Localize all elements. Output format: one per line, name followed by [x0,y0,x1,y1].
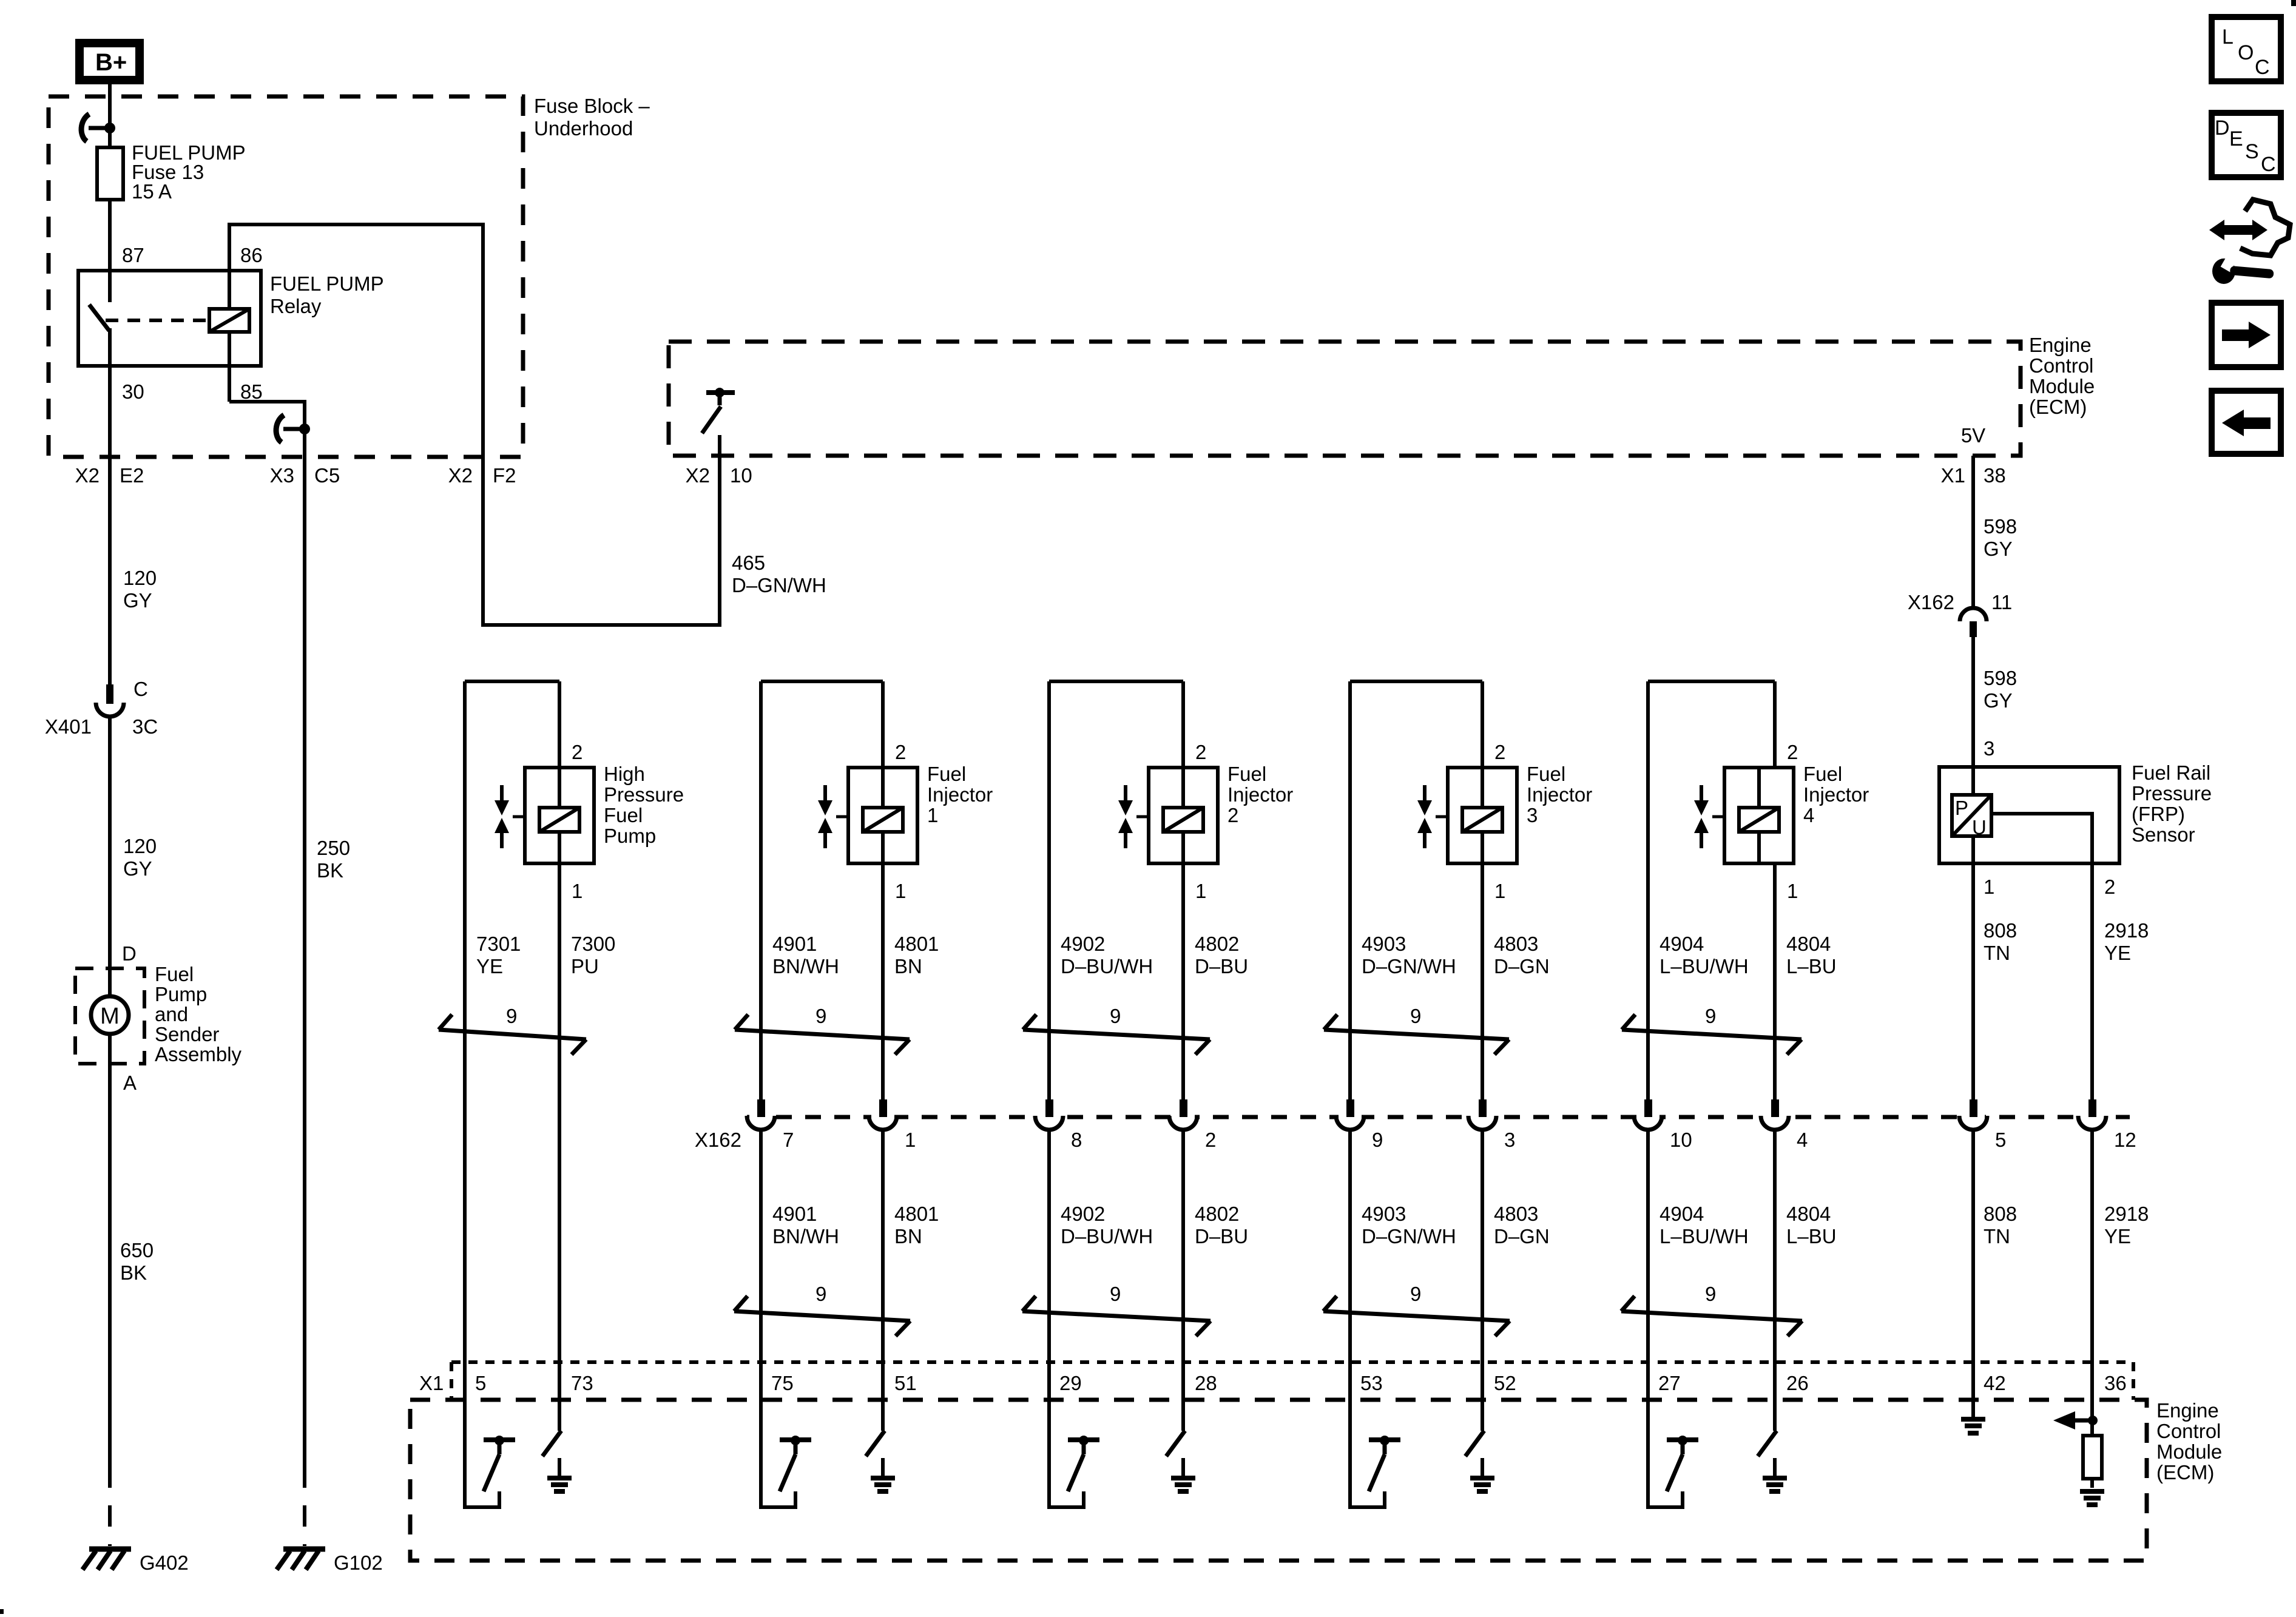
svg-text:2: 2 [1205,1129,1216,1151]
svg-text:11: 11 [1991,591,2012,613]
svg-text:Sensor: Sensor [2132,823,2195,846]
svg-text:4802: 4802 [1195,1203,1239,1225]
svg-text:D–GN: D–GN [1494,955,1550,977]
svg-text:TN: TN [1984,1225,2010,1247]
svg-text:2: 2 [1227,804,1238,826]
svg-text:C5: C5 [314,464,340,487]
icon LOC [2212,17,2281,81]
svg-text:4902: 4902 [1061,933,1105,955]
svg-text:D–BU/WH: D–BU/WH [1061,955,1153,977]
svg-text:4802: 4802 [1195,933,1239,955]
svg-text:Assembly: Assembly [155,1043,242,1065]
svg-text:BN: BN [894,955,922,977]
svg-text:808: 808 [1984,1203,2017,1225]
svg-text:51: 51 [894,1372,917,1394]
svg-text:4803: 4803 [1494,933,1538,955]
svg-text:4: 4 [1797,1129,1808,1151]
svg-text:2: 2 [895,741,906,763]
svg-text:5V: 5V [1961,424,1985,447]
relay coil [209,309,249,332]
svg-text:9: 9 [1705,1005,1716,1027]
svg-text:Underhood: Underhood [534,117,633,140]
svg-text:3: 3 [1504,1129,1515,1151]
svg-text:15 A: 15 A [132,180,172,203]
svg-text:L: L [2222,25,2234,49]
svg-text:4801: 4801 [894,1203,939,1225]
svg-text:GY: GY [123,589,152,612]
svg-text:(FRP): (FRP) [2132,803,2185,825]
svg-text:D–BU: D–BU [1195,1225,1248,1247]
svg-text:52: 52 [1494,1372,1516,1394]
svg-text:4904: 4904 [1660,933,1704,955]
fuse FUEL PUMP Fuse 13 15A [97,147,123,200]
svg-text:(ECM): (ECM) [2029,396,2087,418]
wire relay 85 to ground G102 [229,402,305,1467]
icon arrow left [2212,391,2281,454]
ECM low-side driver for fuel injector 3 pin 53 [1350,1326,1400,1507]
svg-text:L–BU: L–BU [1786,1225,1837,1247]
svg-text:Fuel: Fuel [1803,763,1842,785]
svg-text:9: 9 [815,1005,826,1027]
svg-text:4904: 4904 [1660,1203,1704,1225]
svg-text:9: 9 [1410,1005,1421,1027]
svg-text:29: 29 [1059,1372,1082,1394]
svg-text:D–GN/WH: D–GN/WH [732,574,826,596]
fuel pump motor M [91,996,129,1034]
relay actuator dashed link [106,319,206,322]
wire FRP pin2 [1991,814,2092,1100]
svg-text:X2: X2 [448,464,473,487]
icon diagnostic arrows and wrench [2209,200,2290,284]
svg-text:L–BU: L–BU [1786,955,1837,977]
svg-text:2: 2 [1787,741,1798,763]
svg-text:E: E [2229,127,2243,150]
svg-text:9: 9 [1410,1283,1421,1305]
svg-text:D–GN: D–GN [1494,1225,1550,1247]
svg-text:BK: BK [317,859,343,882]
svg-text:High: High [604,763,645,785]
svg-text:Fuel: Fuel [927,763,966,785]
svg-text:10: 10 [730,464,752,487]
svg-text:8: 8 [1071,1129,1082,1151]
svg-text:E2: E2 [120,464,144,487]
svg-text:Engine: Engine [2156,1399,2219,1422]
svg-text:Engine: Engine [2029,334,2092,356]
svg-text:YE: YE [2104,1225,2131,1247]
wire relay 86 coil feed [229,224,720,625]
svg-text:1: 1 [572,880,582,902]
svg-text:1: 1 [1195,880,1206,902]
svg-text:G402: G402 [140,1551,189,1574]
svg-text:A: A [123,1072,137,1094]
svg-text:28: 28 [1195,1372,1217,1394]
svg-text:4901: 4901 [772,933,817,955]
page edge mark top right [2291,0,2296,6]
svg-text:GY: GY [1984,538,2013,560]
svg-text:1: 1 [905,1129,916,1151]
svg-text:X401: X401 [45,715,92,738]
svg-text:and: and [155,1003,188,1025]
X162 taps for fuel injector 3 [1323,1099,1550,1431]
svg-text:38: 38 [1984,464,2006,487]
svg-text:D: D [2215,116,2230,140]
svg-text:36: 36 [2104,1372,2127,1394]
svg-text:YE: YE [2104,942,2131,964]
ECM internal ground pin 42 [1961,1400,1985,1433]
svg-text:D–BU/WH: D–BU/WH [1061,1225,1153,1247]
icon DESC [2212,113,2281,177]
page edge mark bottom left [0,1609,4,1614]
svg-text:Injector: Injector [927,783,993,806]
svg-text:4804: 4804 [1786,933,1831,955]
svg-text:7300: 7300 [571,933,615,955]
svg-text:Fuel: Fuel [1527,763,1565,785]
fuel injector 2 component [1023,681,1293,1100]
svg-text:Control: Control [2029,354,2093,377]
battery feed B+ [79,43,140,80]
wire pump to ground G402 (650 BK) [108,1034,112,1467]
svg-text:1: 1 [927,804,938,826]
svg-text:4804: 4804 [1786,1203,1831,1225]
fuel pump and sender assembly dashed box [75,968,144,1064]
svg-text:D–GN/WH: D–GN/WH [1362,1225,1456,1247]
svg-text:D: D [122,942,137,965]
ECM ground return for fuel injector 4 pin 26 [1758,1372,1809,1491]
engine control module top dashed box [669,342,2021,456]
svg-text:808: 808 [1984,919,2017,942]
svg-text:75: 75 [771,1372,794,1394]
svg-text:D–BU: D–BU [1195,955,1248,977]
svg-text:26: 26 [1786,1372,1809,1394]
ground G102 [283,1547,325,1552]
svg-text:598: 598 [1984,515,2017,538]
svg-text:9: 9 [1110,1283,1121,1305]
svg-text:73: 73 [571,1372,593,1394]
svg-text:4803: 4803 [1494,1203,1538,1225]
svg-text:2: 2 [1494,741,1505,763]
svg-text:GY: GY [123,857,152,880]
svg-text:2: 2 [572,741,582,763]
svg-text:1: 1 [1787,880,1798,902]
svg-text:2: 2 [2104,876,2115,898]
svg-text:7: 7 [783,1129,794,1151]
svg-text:X3: X3 [270,464,294,487]
connector X162 dashed line [747,1115,2130,1119]
svg-text:465: 465 [732,552,765,574]
svg-text:3: 3 [1527,804,1538,826]
X162 taps for fuel injector 2 [1022,1099,1248,1431]
svg-text:Control: Control [2156,1420,2221,1442]
svg-text:Relay: Relay [270,295,322,317]
svg-text:9: 9 [506,1005,517,1027]
engine control module bottom dashed box [410,1400,2147,1561]
svg-text:Injector: Injector [1803,783,1869,806]
svg-text:4801: 4801 [894,933,939,955]
svg-text:5: 5 [1995,1129,2006,1151]
wire ECM 38 to X162-11 (598 GY) [1971,456,1975,607]
fuel injector 4 component [1622,681,1869,1100]
svg-text:87: 87 [122,244,144,266]
ECM ground return for fuel injector 2 pin 28 [1166,1372,1217,1491]
svg-text:120: 120 [123,567,157,589]
fuel rail pressure sensor box [1939,767,2119,863]
wire X401 to pump (120 GY) [108,717,112,996]
X162 taps for fuel injector 4 [1621,1099,1837,1431]
svg-text:X162: X162 [1908,591,1954,613]
ECM pin 36 pull-up: arrow, resistor, ground [2053,1400,2104,1505]
clip junction at relay 85 [283,427,305,431]
ECM low-side driver for fuel injector 4 pin 27 [1648,1326,1698,1507]
svg-text:C: C [133,678,148,700]
svg-text:3C: 3C [132,715,158,738]
resistor R in ECM [2083,1436,2102,1479]
svg-text:598: 598 [1984,667,2017,689]
X162 taps for fuel injector 1 [734,1099,939,1431]
svg-text:30: 30 [122,380,144,403]
engine control module bottom box dotted pin line [451,1360,2133,1364]
svg-text:Module: Module [2029,375,2095,397]
ground G402 [89,1547,131,1552]
svg-text:1: 1 [1494,880,1505,902]
svg-text:Fuel: Fuel [604,804,643,826]
clip junction at fuse feed [89,126,110,130]
svg-text:85: 85 [240,380,263,403]
svg-text:YE: YE [476,955,503,977]
fuel pump relay box [78,271,261,366]
svg-text:2918: 2918 [2104,1203,2149,1225]
svg-text:L–BU/WH: L–BU/WH [1660,955,1749,977]
svg-text:FUEL PUMP: FUEL PUMP [270,272,384,295]
wire FRP pin1 [1971,836,1975,1100]
relay switch blade [89,305,109,331]
svg-text:650: 650 [120,1239,154,1261]
ECM driver switch at pin 10 [706,390,735,395]
wire X162-11 to FRP sensor (598 GY) [1971,637,1975,795]
svg-text:Injector: Injector [1527,783,1592,806]
svg-text:GY: GY [1984,689,2013,712]
svg-text:2918: 2918 [2104,919,2149,942]
svg-text:4: 4 [1803,804,1814,826]
svg-text:F2: F2 [493,464,516,487]
svg-text:BK: BK [120,1261,147,1284]
svg-text:X162: X162 [695,1129,741,1151]
svg-text:4903: 4903 [1362,1203,1406,1225]
svg-text:C: C [2261,153,2276,176]
connector X401 [106,684,113,704]
svg-text:U: U [1972,816,1987,839]
svg-text:X1: X1 [419,1372,444,1394]
wire fuse to relay 87 [108,200,112,302]
svg-text:53: 53 [1360,1372,1383,1394]
svg-text:9: 9 [815,1283,826,1305]
svg-text:Module: Module [2156,1440,2222,1463]
svg-text:4902: 4902 [1061,1203,1105,1225]
connector X162 pin 11 [1960,608,1987,621]
svg-text:Pressure: Pressure [604,783,684,806]
svg-text:(ECM): (ECM) [2156,1461,2214,1484]
ECM low-side driver for fuel injector 1 pin 75 [761,1326,811,1507]
svg-text:Pump: Pump [604,825,656,847]
fuse block underhood dashed box [49,96,523,457]
svg-text:Fuse Block –: Fuse Block – [534,95,650,117]
svg-text:O: O [2238,41,2254,64]
svg-text:Pressure: Pressure [2132,782,2212,805]
svg-text:X2: X2 [686,464,710,487]
svg-text:P: P [1955,797,1968,819]
ECM ground return for high pressure fuel pump pin 73 [542,1372,593,1491]
svg-text:42: 42 [1984,1372,2006,1394]
svg-text:B+: B+ [95,49,127,76]
icon arrow right [2212,303,2281,367]
svg-text:Pump: Pump [155,983,207,1005]
svg-text:BN/WH: BN/WH [772,955,839,977]
svg-text:9: 9 [1110,1005,1121,1027]
svg-text:4901: 4901 [772,1203,817,1225]
svg-text:X1: X1 [1941,464,1965,487]
svg-text:Sender: Sender [155,1023,219,1045]
svg-text:27: 27 [1658,1372,1681,1394]
svg-text:TN: TN [1984,942,2010,964]
svg-text:L–BU/WH: L–BU/WH [1660,1225,1749,1247]
svg-text:2: 2 [1195,741,1206,763]
svg-text:86: 86 [240,244,263,266]
svg-text:M: M [100,1004,120,1029]
svg-text:7301: 7301 [476,933,521,955]
svg-text:9: 9 [1372,1129,1383,1151]
svg-text:Fuel: Fuel [1227,763,1266,785]
svg-text:Fuel: Fuel [155,963,194,985]
svg-text:C: C [2255,56,2270,79]
svg-text:PU: PU [571,955,599,977]
svg-text:250: 250 [317,837,350,859]
high pressure fuel pump component [439,681,684,1431]
wire relay 30 to fuel pump (120 GY) [108,328,112,684]
svg-text:X2: X2 [75,464,100,487]
fuel injector 3 component [1324,681,1592,1100]
svg-text:Injector: Injector [1227,783,1293,806]
svg-text:Fuel Rail: Fuel Rail [2132,761,2210,784]
svg-text:4903: 4903 [1362,933,1406,955]
svg-text:1: 1 [1984,876,1994,898]
svg-text:3: 3 [1984,737,1994,760]
ECM low-side driver for fuel injector 2 pin 29 [1049,1326,1099,1507]
svg-text:D–GN/WH: D–GN/WH [1362,955,1456,977]
X162 tap pin 5 (808 TN) [1959,1099,2017,1417]
svg-text:BN: BN [894,1225,922,1247]
X162 tap pin 12 (2918 YE) [2078,1099,2149,1420]
svg-text:5: 5 [475,1372,486,1394]
ECM low-side driver for high pressure fuel pump pin 5 [465,1326,515,1507]
svg-text:S: S [2245,140,2259,163]
svg-text:10: 10 [1670,1129,1692,1151]
svg-text:1: 1 [895,880,906,902]
wire B+ to fuse [108,80,112,147]
ECM ground return for fuel injector 1 pin 51 [866,1372,917,1491]
svg-text:BN/WH: BN/WH [772,1225,839,1247]
svg-text:G102: G102 [334,1551,383,1574]
ECM ground return for fuel injector 3 pin 52 [1465,1372,1516,1491]
svg-text:120: 120 [123,835,157,857]
FRP P/U transducer [1952,795,1991,836]
fuel injector 1 component [735,681,993,1100]
svg-text:12: 12 [2114,1129,2136,1151]
svg-text:9: 9 [1705,1283,1716,1305]
